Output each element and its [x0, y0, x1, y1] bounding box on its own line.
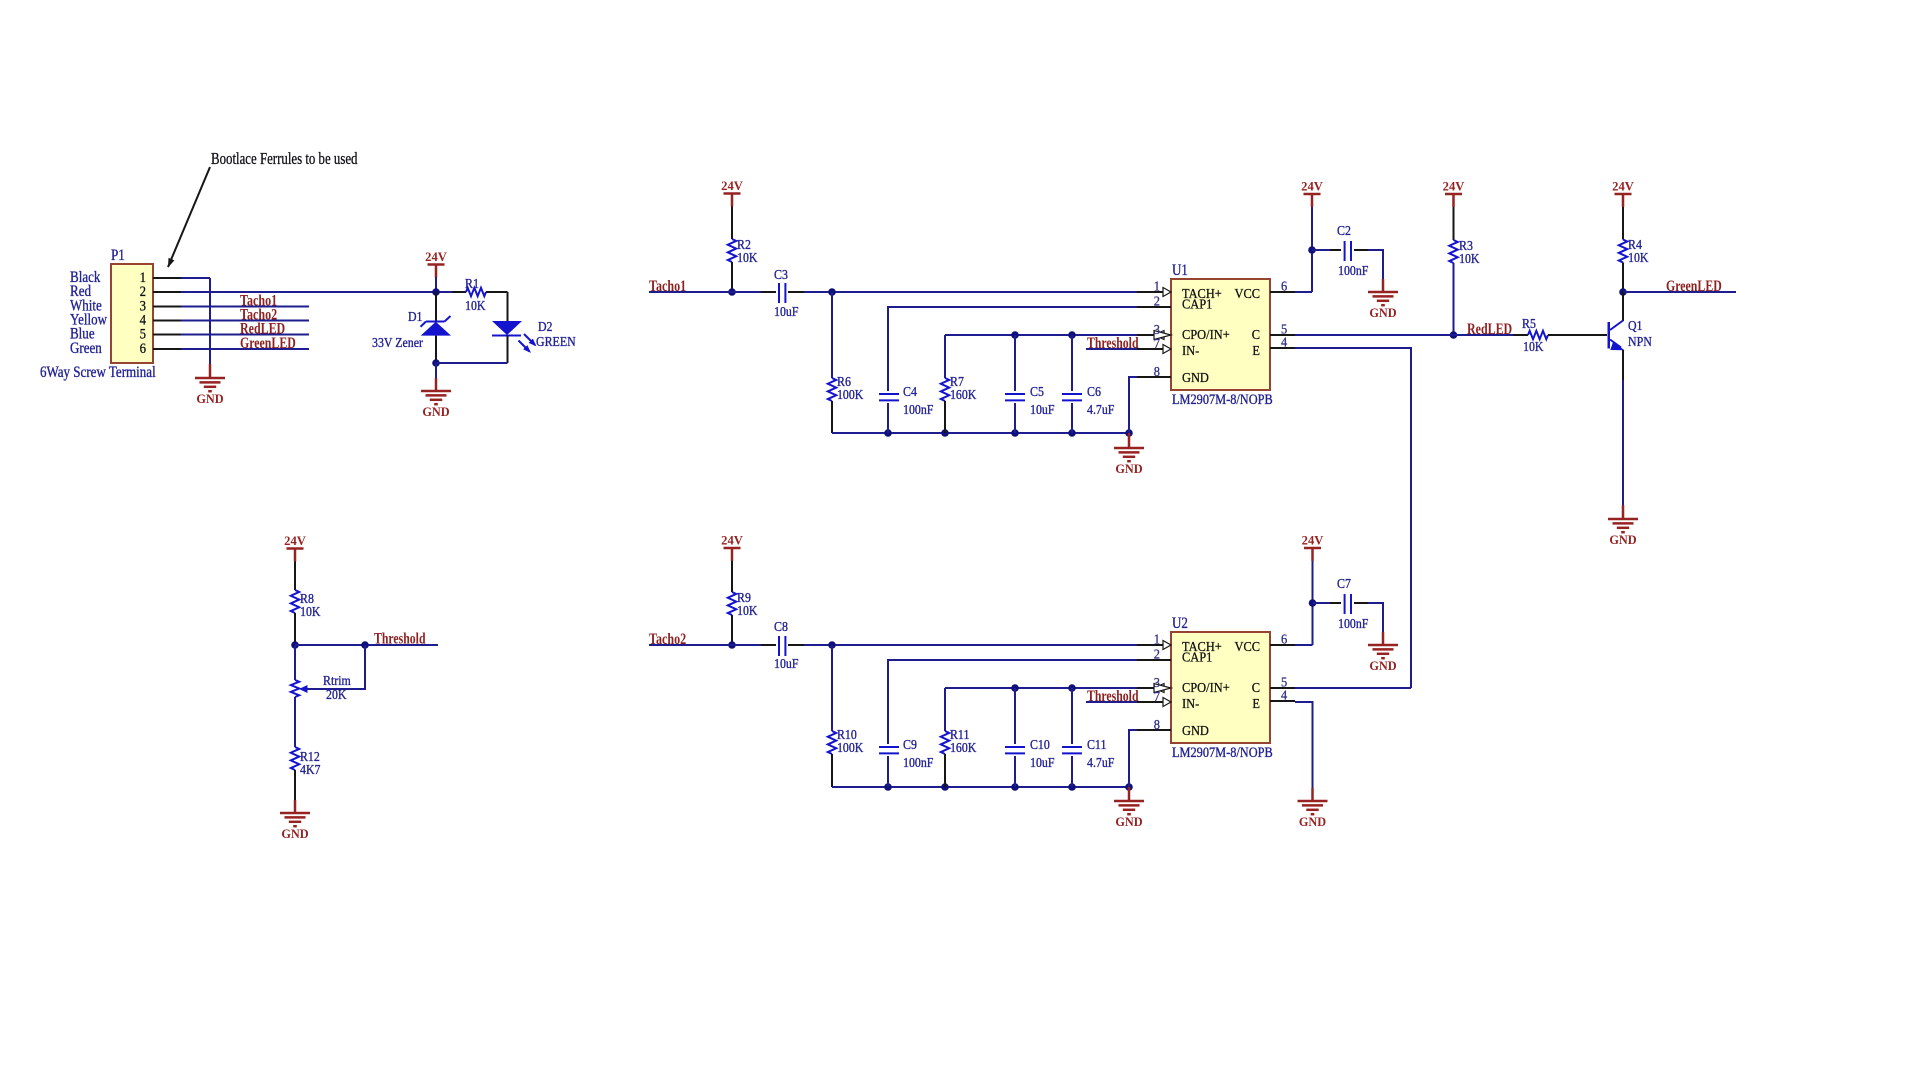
svg-text:100nF: 100nF	[903, 403, 934, 418]
svg-text:C3: C3	[774, 268, 788, 283]
svg-text:Green: Green	[70, 340, 102, 357]
svg-text:8: 8	[1154, 717, 1160, 732]
svg-text:NPN: NPN	[1628, 335, 1652, 350]
svg-text:C: C	[1252, 680, 1260, 695]
svg-text:4: 4	[1281, 335, 1287, 350]
svg-text:2: 2	[1154, 294, 1160, 309]
svg-text:100K: 100K	[837, 741, 863, 756]
svg-text:C4: C4	[903, 385, 917, 400]
svg-text:CAP1: CAP1	[1182, 650, 1212, 665]
svg-text:10uF: 10uF	[1030, 403, 1055, 418]
svg-text:24V: 24V	[1612, 179, 1634, 194]
svg-text:6Way Screw Terminal: 6Way Screw Terminal	[40, 364, 156, 381]
svg-text:LM2907M-8/NOPB: LM2907M-8/NOPB	[1172, 745, 1273, 761]
svg-text:160K: 160K	[950, 388, 976, 403]
svg-text:C6: C6	[1087, 385, 1101, 400]
svg-text:GND: GND	[1115, 814, 1142, 829]
svg-text:10K: 10K	[1523, 340, 1544, 355]
svg-text:VCC: VCC	[1235, 286, 1261, 301]
svg-text:10K: 10K	[737, 251, 758, 266]
svg-text:24V: 24V	[425, 249, 447, 264]
svg-text:CPO/IN+: CPO/IN+	[1182, 327, 1230, 342]
svg-text:10K: 10K	[1628, 251, 1649, 266]
svg-text:GND: GND	[1369, 305, 1396, 320]
svg-text:GND: GND	[422, 404, 449, 419]
svg-text:C2: C2	[1337, 224, 1351, 239]
svg-text:C7: C7	[1337, 577, 1351, 592]
svg-text:R5: R5	[1522, 317, 1536, 332]
svg-text:GreenLED: GreenLED	[240, 335, 296, 352]
svg-text:4: 4	[1281, 688, 1287, 703]
svg-text:D1: D1	[408, 310, 423, 325]
svg-text:24V: 24V	[1301, 179, 1323, 194]
svg-text:GND: GND	[1182, 723, 1209, 738]
svg-text:Threshold: Threshold	[374, 631, 426, 648]
svg-text:4.7uF: 4.7uF	[1087, 756, 1115, 771]
svg-text:100K: 100K	[837, 388, 863, 403]
svg-text:8: 8	[1154, 364, 1160, 379]
svg-text:GND: GND	[196, 391, 223, 406]
svg-text:6: 6	[1281, 632, 1287, 647]
svg-text:C10: C10	[1030, 738, 1050, 753]
svg-text:100nF: 100nF	[903, 756, 934, 771]
svg-text:Bootlace Ferrules to be used: Bootlace Ferrules to be used	[211, 149, 358, 168]
svg-text:GND: GND	[1369, 658, 1396, 673]
svg-text:10K: 10K	[465, 299, 486, 314]
svg-text:C8: C8	[774, 620, 788, 635]
svg-text:6: 6	[140, 341, 147, 357]
svg-text:10uF: 10uF	[1030, 756, 1055, 771]
svg-text:RedLED: RedLED	[1467, 321, 1512, 338]
svg-text:24V: 24V	[1302, 533, 1324, 548]
svg-text:GND: GND	[1299, 814, 1326, 829]
svg-text:1: 1	[1154, 632, 1160, 647]
svg-text:E: E	[1252, 343, 1260, 358]
svg-text:GND: GND	[281, 826, 308, 841]
svg-text:GND: GND	[1182, 370, 1209, 385]
svg-text:7: 7	[1154, 336, 1160, 351]
svg-text:160K: 160K	[950, 741, 976, 756]
svg-text:4K7: 4K7	[300, 763, 321, 778]
svg-text:IN-: IN-	[1182, 343, 1200, 358]
svg-text:C5: C5	[1030, 385, 1044, 400]
svg-text:2: 2	[1154, 647, 1160, 662]
svg-text:C11: C11	[1087, 738, 1106, 753]
svg-text:IN-: IN-	[1182, 696, 1200, 711]
svg-text:C: C	[1252, 327, 1260, 342]
svg-text:3: 3	[1154, 322, 1160, 337]
svg-text:VCC: VCC	[1235, 639, 1261, 654]
svg-text:U2: U2	[1172, 615, 1188, 632]
svg-text:33V Zener: 33V Zener	[372, 336, 423, 351]
svg-text:3: 3	[1154, 675, 1160, 690]
svg-text:10K: 10K	[300, 605, 321, 620]
svg-text:GreenLED: GreenLED	[1666, 278, 1722, 295]
svg-text:U1: U1	[1172, 262, 1188, 279]
svg-text:24V: 24V	[721, 533, 743, 548]
svg-text:CPO/IN+: CPO/IN+	[1182, 680, 1230, 695]
svg-text:24V: 24V	[284, 533, 306, 548]
svg-text:E: E	[1252, 696, 1260, 711]
svg-text:1: 1	[1154, 279, 1160, 294]
svg-text:10uF: 10uF	[774, 657, 799, 672]
svg-text:100nF: 100nF	[1338, 264, 1369, 279]
svg-text:D2: D2	[538, 320, 553, 335]
svg-text:R1: R1	[465, 277, 479, 292]
svg-text:10uF: 10uF	[774, 305, 799, 320]
svg-text:P1: P1	[111, 247, 125, 264]
svg-text:CAP1: CAP1	[1182, 297, 1212, 312]
svg-text:6: 6	[1281, 279, 1287, 294]
svg-text:Rtrim: Rtrim	[323, 674, 351, 689]
svg-text:4.7uF: 4.7uF	[1087, 403, 1115, 418]
svg-text:LM2907M-8/NOPB: LM2907M-8/NOPB	[1172, 392, 1273, 408]
svg-text:10K: 10K	[737, 604, 758, 619]
svg-text:7: 7	[1154, 689, 1160, 704]
svg-text:Q1: Q1	[1628, 319, 1643, 334]
svg-text:24V: 24V	[721, 178, 743, 193]
svg-text:GREEN: GREEN	[536, 335, 576, 350]
svg-text:GND: GND	[1115, 461, 1142, 476]
svg-text:100nF: 100nF	[1338, 617, 1369, 632]
svg-text:C9: C9	[903, 738, 917, 753]
svg-text:24V: 24V	[1443, 179, 1465, 194]
svg-text:GND: GND	[1609, 532, 1636, 547]
svg-text:20K: 20K	[326, 688, 347, 703]
svg-text:10K: 10K	[1459, 252, 1480, 267]
